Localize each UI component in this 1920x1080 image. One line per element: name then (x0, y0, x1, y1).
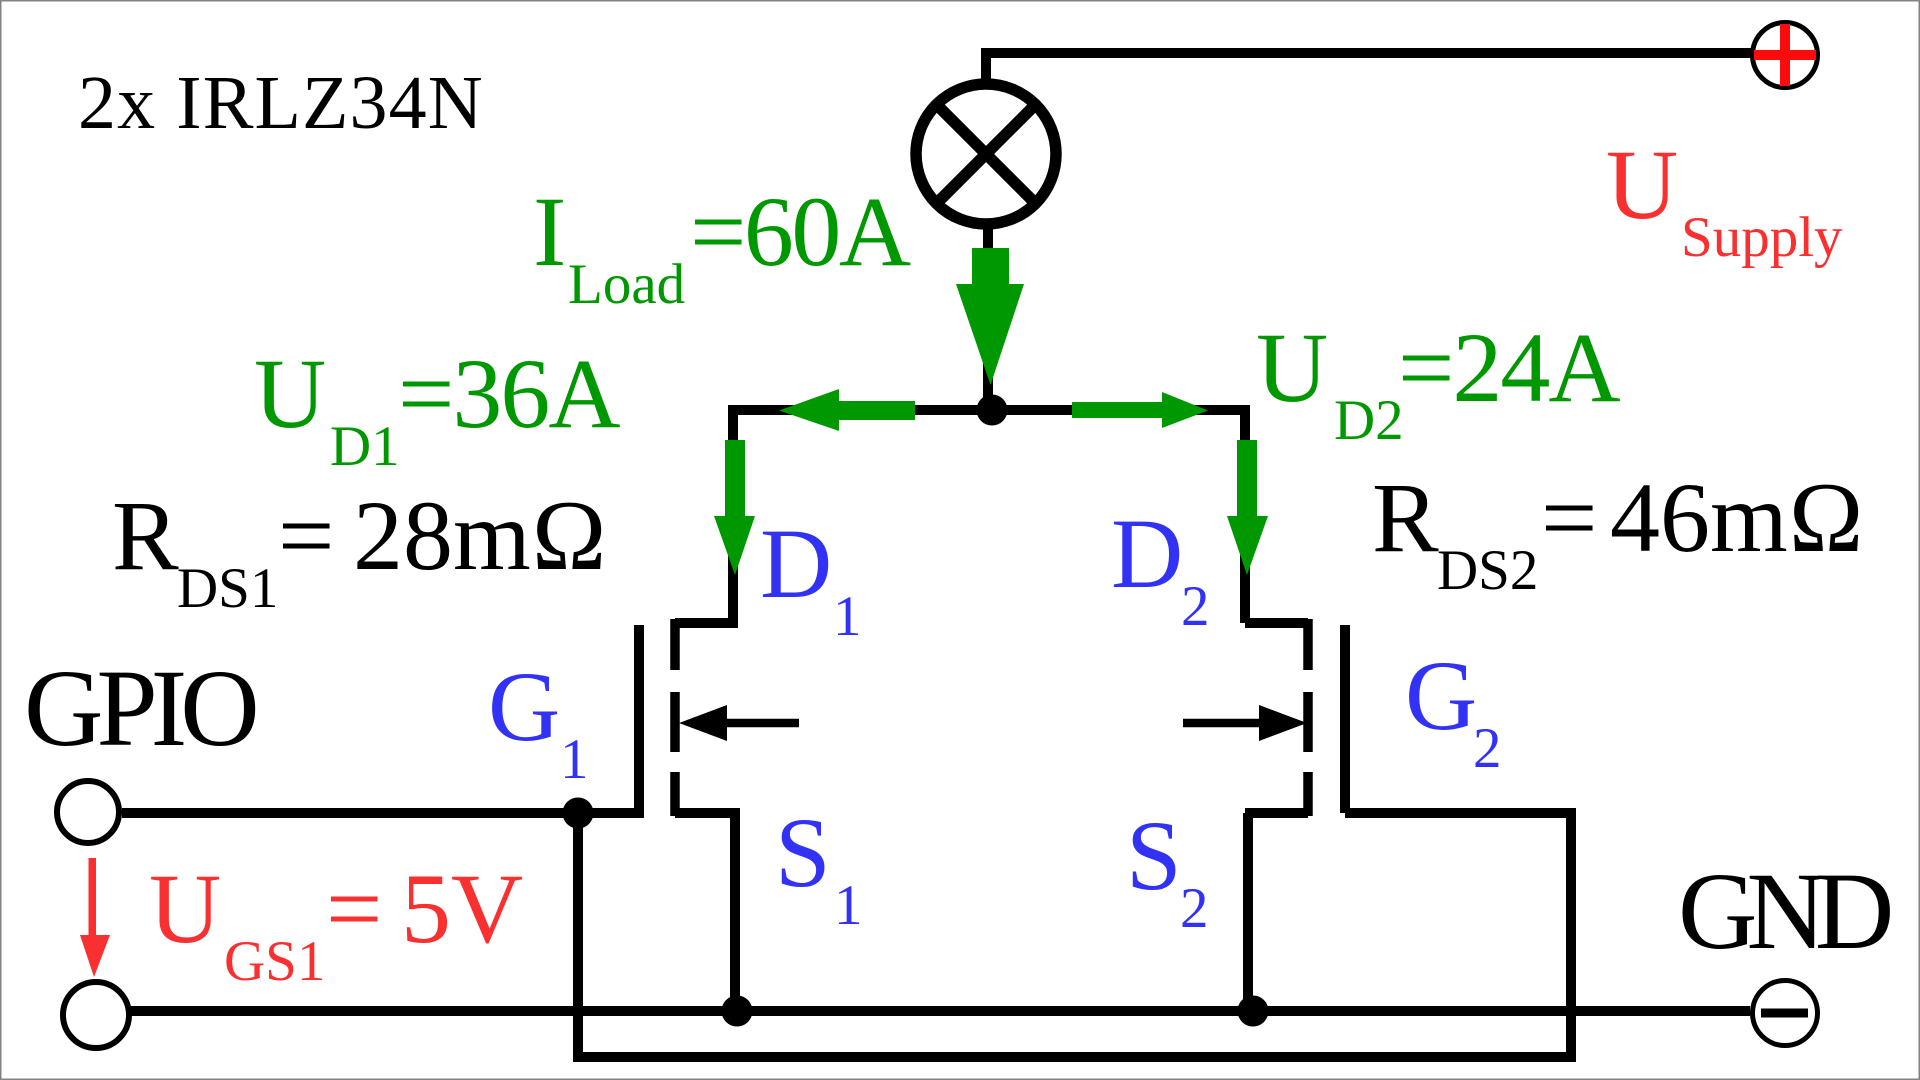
transistor Q1 (639, 619, 799, 1011)
Q1 source pin (675, 808, 740, 818)
lamp LP1 (916, 84, 1056, 224)
Q1 source wire (730, 813, 740, 1011)
current arrow D2 (1227, 440, 1268, 575)
wire GPIO to gates (122, 808, 644, 818)
Q2 source pin (1245, 808, 1308, 818)
Q1 gate arrow (727, 719, 799, 728)
Q2 channel (1303, 619, 1313, 816)
current arrow right branch (1072, 392, 1208, 428)
current arrow D1 (714, 440, 755, 575)
svg-text:GND: GND (1678, 850, 1891, 972)
wire lamp to node (983, 222, 993, 410)
voltage arrow U GS1 (80, 858, 110, 977)
node gate junction (563, 798, 594, 829)
Q2 gate electrode (1340, 625, 1350, 813)
terminal GPIO low (63, 982, 129, 1048)
Q2 source wire (1243, 813, 1253, 1011)
current arrow left branch (779, 389, 915, 431)
terminal GND minus (1753, 981, 1818, 1046)
Q1 drain pin (675, 618, 738, 628)
node junction (977, 395, 1008, 426)
Q2 gate arrow (1183, 719, 1261, 728)
node S1 junction (722, 996, 753, 1027)
terminal GPIO high (57, 781, 119, 843)
Q1 channel (670, 619, 680, 816)
wire gate bus (578, 813, 1571, 1057)
svg-text:GPIO: GPIO (24, 647, 255, 769)
wire supply top (986, 53, 1755, 86)
current arrow I load (956, 248, 1024, 385)
Q2 drain pin (1245, 618, 1308, 628)
Q1 gate electrode (634, 625, 644, 813)
terminal supply plus (1753, 23, 1818, 88)
svg-text:2x IRLZ34N: 2x IRLZ34N (78, 61, 484, 145)
node S2 junction (1238, 996, 1269, 1027)
wire GND bus (130, 1006, 1750, 1016)
wire distribution (733, 410, 1245, 623)
transistor Q2 (1183, 619, 1345, 1011)
